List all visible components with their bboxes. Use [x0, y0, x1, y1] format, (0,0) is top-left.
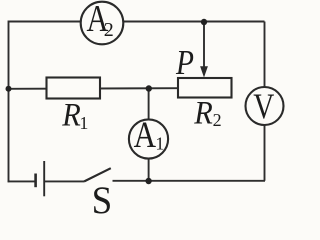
label R1: [61, 96, 88, 133]
svg-text:P: P: [175, 42, 194, 81]
battery negative plate (short thick): [34, 174, 37, 188]
label R2: [193, 94, 221, 130]
node: left junction: [6, 86, 12, 92]
wire: bottom left to battery: [8, 180, 35, 182]
wire: top rail: [9, 21, 265, 23]
label A2: [87, 0, 114, 41]
wire: right rail: [264, 22, 266, 181]
svg-text:R: R: [193, 94, 212, 130]
wire: switch to bottom right: [113, 180, 266, 182]
wire: slider tap from top rail: [203, 22, 205, 68]
svg-text:2: 2: [104, 19, 114, 41]
wire: junction down to ammeter A1: [148, 89, 150, 121]
node: top slider tap junction: [201, 19, 207, 25]
svg-text:A: A: [134, 116, 157, 156]
wire: battery to switch: [45, 180, 84, 182]
ammeter A1 circle: [129, 119, 168, 158]
svg-text:V: V: [253, 87, 274, 127]
wire: left rail: [8, 21, 10, 183]
wire: ammeter A1 down to bottom rail: [148, 158, 150, 182]
node: bottom junction A1: [145, 178, 151, 184]
resistor R2 body (rheostat): [178, 78, 232, 98]
svg-text:1: 1: [155, 134, 164, 154]
svg-text:R: R: [61, 96, 80, 132]
svg-text:1: 1: [79, 113, 88, 133]
svg-text:S: S: [92, 179, 113, 214]
wire: middle rail through R1 to R2: [9, 87, 179, 90]
battery positive plate (long thin): [43, 161, 45, 196]
switch S lever arm (open): [84, 168, 111, 181]
label A1: [134, 116, 165, 156]
voltmeter V circle: [246, 87, 284, 125]
svg-text:2: 2: [213, 110, 222, 130]
ammeter A2 circle: [81, 2, 124, 45]
slider arrowhead onto R2: [200, 66, 208, 77]
resistor R1 body: [47, 78, 101, 99]
node: middle junction R1-A1: [146, 85, 152, 91]
